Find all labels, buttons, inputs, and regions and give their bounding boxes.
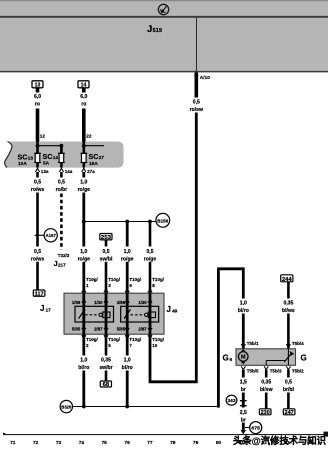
svg-text:5: 5: [108, 343, 111, 348]
svg-text:ro/br: ro/br: [56, 187, 68, 193]
terminal box 13: [32, 81, 43, 89]
svg-text:0,5: 0,5: [34, 179, 41, 185]
ground bus from B326: [73, 405, 219, 409]
svg-text:217: 217: [58, 262, 66, 267]
fuse panel (gray banner with SC fuses): [5, 142, 124, 168]
svg-text:13a: 13a: [41, 169, 49, 174]
svg-text:ro: ro: [81, 101, 86, 107]
svg-text:1: 1: [86, 283, 89, 288]
svg-text:76: 76: [124, 440, 130, 446]
svg-text:B326: B326: [61, 405, 71, 410]
svg-text:17: 17: [46, 307, 52, 313]
svg-text:1,0: 1,0: [80, 249, 87, 255]
svg-text:0,5: 0,5: [58, 179, 65, 185]
svg-text:14: 14: [53, 155, 59, 160]
svg-text:74: 74: [79, 440, 85, 446]
wire SC13 to 117 (0,5 ro/ws): [31, 172, 44, 247]
wire from 14 to SC27 (6,0 ro): [80, 88, 87, 142]
connector T5b/5: [241, 366, 259, 373]
svg-text:bl/ro: bl/ro: [122, 365, 133, 371]
wire T10g/7 down (1,0 bl/ro): [122, 334, 133, 406]
ground point 675: [245, 422, 262, 434]
svg-text:8: 8: [152, 283, 155, 288]
connector T10g/1: [86, 277, 99, 288]
svg-text:1,0: 1,0: [124, 249, 131, 255]
fuel pump motor M: [238, 349, 248, 364]
wire SC27 down (1,0 ro/ge): [78, 172, 91, 247]
svg-text:T10g/: T10g/: [108, 277, 121, 282]
svg-text:2/87: 2/87: [138, 327, 147, 332]
svg-text:80: 80: [216, 440, 222, 446]
svg-text:1/30: 1/30: [94, 300, 103, 305]
connector T10g/3: [108, 277, 121, 288]
connector T5b/3: [264, 366, 282, 373]
svg-text:13: 13: [28, 156, 34, 161]
wire 1,0 ro/ge to T10g/1: [78, 249, 91, 293]
svg-text:49: 49: [172, 308, 178, 314]
pin arrows at carrier bottom edge: [82, 335, 152, 338]
svg-text:1,0: 1,0: [124, 357, 131, 363]
wire T10g/10 loop to A/10: [149, 334, 197, 382]
fuse SC27 symbol: [80, 153, 87, 162]
svg-text:bl/ro: bl/ro: [78, 365, 89, 371]
ground wire 1,5 br: [240, 370, 247, 408]
svg-text:SC: SC: [43, 152, 53, 161]
svg-text:15A: 15A: [89, 161, 98, 167]
svg-text:sw/br: sw/br: [99, 365, 112, 371]
internal wire of J519: [196, 18, 198, 72]
svg-text:T10g/: T10g/: [86, 277, 99, 282]
control unit J519 box (top gray band): [0, 0, 328, 72]
svg-text:343: 343: [228, 398, 237, 403]
wire 244 to T5b/4 (0,35 bl/ws): [282, 282, 295, 349]
wire 0,5 ro/ws lower part: [31, 249, 44, 290]
svg-text:ro/ge: ro/ge: [144, 256, 157, 262]
svg-text:头条@汽修技术与知识: 头条@汽修技术与知识: [233, 435, 326, 447]
svg-text:1,0: 1,0: [240, 300, 247, 306]
wire 1,0 ro/ge to T10g/6: [121, 222, 134, 294]
svg-text:1,0: 1,0: [80, 179, 87, 185]
svg-text:247: 247: [285, 410, 294, 416]
relay J49 symbol: [121, 306, 159, 322]
svg-text:3: 3: [108, 283, 111, 288]
svg-text:J: J: [40, 304, 44, 313]
bus wire inside fuse panel: [36, 144, 104, 148]
label J217: [54, 259, 67, 268]
track numbers: [10, 440, 313, 446]
svg-text:2/87: 2/87: [94, 327, 103, 332]
svg-text:bl/ro: bl/ro: [238, 308, 249, 314]
wire A/10 from J519 (0,5 ro/sw): [190, 72, 203, 383]
fuel pump unit G6/G box: [236, 349, 296, 366]
svg-text:ro: ro: [35, 101, 40, 107]
sender wire 0,5 br/bl to 247: [283, 370, 295, 409]
svg-text:sw/bl: sw/bl: [100, 256, 113, 262]
connector T10g/5: [108, 337, 121, 348]
svg-text:A167: A167: [45, 233, 56, 238]
svg-text:0,5: 0,5: [193, 99, 200, 105]
svg-text:B156: B156: [157, 218, 169, 223]
fuse SC13 label: [18, 152, 34, 167]
svg-text:0,5: 0,5: [285, 379, 292, 385]
wire from 13 to SC13 (6,0 ro): [34, 88, 41, 142]
continuation box 244: [281, 275, 293, 283]
svg-text:0,5: 0,5: [102, 249, 109, 255]
svg-text:T5b/1: T5b/1: [247, 341, 259, 346]
fuse outlet 27a: [82, 168, 96, 173]
continuation box 68: [100, 381, 111, 388]
svg-text:ro/ge: ro/ge: [78, 187, 91, 193]
svg-text:27a: 27a: [87, 169, 95, 174]
svg-text:14a: 14a: [65, 169, 73, 174]
wire T10g/2 down (1,0 bl/ro): [78, 334, 89, 406]
svg-text:ro/ge: ro/ge: [121, 256, 134, 262]
svg-text:T5b/4: T5b/4: [292, 341, 304, 346]
wire 0,5 ro/ge to T10g/8: [144, 222, 157, 294]
svg-text:75: 75: [102, 440, 108, 446]
svg-text:ro/sw: ro/sw: [190, 107, 203, 113]
continuation box 117: [33, 290, 45, 298]
node bus to B156: [82, 220, 156, 224]
svg-text:2: 2: [86, 343, 89, 348]
svg-text:G: G: [301, 354, 307, 363]
fuse outlet 14a: [59, 168, 73, 173]
sender G symbol: [266, 349, 294, 366]
connector T10g/6: [129, 277, 142, 288]
connection box 253: [100, 234, 112, 242]
connection B156: [156, 213, 170, 227]
relay J17 symbol: [75, 306, 114, 322]
connection B326: [60, 400, 72, 412]
svg-text:M: M: [241, 355, 246, 361]
svg-text:5/85: 5/85: [117, 327, 126, 332]
svg-text:72: 72: [33, 440, 39, 446]
svg-text:0,5: 0,5: [146, 249, 153, 255]
svg-text:T10g/: T10g/: [152, 337, 165, 342]
svg-text:br/bl: br/bl: [283, 387, 295, 393]
svg-text:5/85: 5/85: [72, 327, 81, 332]
fuse SC14 symbol: [58, 153, 65, 162]
wires through carrier: [84, 293, 150, 334]
svg-text:77: 77: [147, 440, 153, 446]
fuse SC27 label: [89, 152, 105, 167]
svg-text:117: 117: [35, 292, 44, 298]
svg-text:12: 12: [40, 133, 46, 138]
svg-text:6: 6: [230, 357, 233, 363]
fuse outlet 13a: [35, 168, 49, 173]
svg-text:bl/sw: bl/sw: [260, 387, 273, 393]
svg-text:SC: SC: [89, 152, 99, 161]
svg-text:2,5: 2,5: [240, 410, 247, 416]
svg-text:ro/ws: ro/ws: [31, 256, 44, 262]
svg-text:T32/3: T32/3: [58, 253, 70, 258]
svg-text:7: 7: [129, 343, 132, 348]
connector T10g/10: [152, 337, 165, 348]
svg-text:G: G: [223, 354, 229, 363]
connector T5b/4: [286, 341, 304, 348]
svg-text:13: 13: [35, 83, 41, 89]
connection A167: [35, 229, 58, 242]
svg-text:1/86: 1/86: [72, 300, 81, 305]
connector T10g/7: [129, 337, 142, 348]
relay J49 pins inside carrier: [117, 299, 152, 331]
svg-text:br: br: [241, 417, 246, 423]
ground connection 343: [226, 395, 247, 406]
svg-text:T10g/: T10g/: [129, 277, 142, 282]
label G6: [223, 354, 233, 363]
svg-text:5A: 5A: [43, 161, 50, 167]
wire T10g/5 down (0,35 sw/br) to box 68: [99, 334, 112, 381]
terminal box 14: [78, 81, 89, 89]
svg-text:519: 519: [153, 28, 162, 34]
svg-text:675: 675: [251, 426, 260, 431]
svg-text:79: 79: [193, 440, 199, 446]
ground wire 2,5 br to frame: [240, 410, 247, 435]
svg-text:1,0: 1,0: [80, 357, 87, 363]
svg-text:10A: 10A: [18, 161, 27, 167]
label J49: [167, 305, 178, 314]
svg-text:27: 27: [99, 155, 105, 160]
system icon (circle with pump symbol) in title bar: [158, 4, 168, 14]
feed wire up-over-down to fuel pump: [217, 269, 249, 408]
connector T5b/1: [241, 341, 259, 348]
svg-text:ro/ge: ro/ge: [78, 256, 91, 262]
svg-text:0,35: 0,35: [283, 300, 293, 306]
svg-text:78: 78: [170, 440, 176, 446]
svg-text:244: 244: [282, 277, 292, 283]
svg-text:A/10: A/10: [200, 75, 210, 81]
connector T10g/2: [86, 337, 99, 348]
fuse SC13 symbol: [34, 153, 41, 162]
svg-text:73: 73: [56, 440, 62, 446]
wire stubs into fuses: [38, 142, 84, 168]
wire 0,5 sw/bl to T10g/3: [100, 240, 113, 293]
continuation box 247: [283, 409, 295, 416]
svg-text:T10g/: T10g/: [152, 277, 165, 282]
svg-text:SC: SC: [18, 152, 28, 161]
svg-text:T10g/: T10g/: [108, 337, 121, 342]
continuation box 230: [259, 409, 271, 416]
svg-text:bl/ws: bl/ws: [282, 308, 295, 314]
svg-text:68: 68: [103, 382, 110, 388]
svg-text:0,5: 0,5: [34, 249, 41, 255]
label J17: [40, 304, 51, 313]
sender wire 0,35 bl/sw to 230: [260, 370, 273, 409]
relay carrier plate: [64, 293, 164, 334]
svg-text:T5b/3: T5b/3: [270, 368, 282, 373]
connector T10g/8: [152, 277, 165, 288]
svg-text:14: 14: [81, 83, 87, 89]
label J519: [147, 24, 162, 35]
svg-text:230: 230: [261, 410, 270, 416]
svg-text:0,35: 0,35: [261, 379, 271, 385]
svg-text:10: 10: [152, 343, 158, 348]
svg-text:T5b/5: T5b/5: [247, 368, 259, 373]
svg-text:1/30: 1/30: [138, 300, 147, 305]
pin arrows at carrier top edge: [82, 289, 152, 292]
svg-text:J: J: [147, 24, 152, 35]
svg-text:6,0: 6,0: [34, 94, 41, 100]
wire SC14 to J217 (0,5 ro/br, dashed): [56, 172, 68, 250]
connector T5b/2: [286, 366, 304, 373]
svg-text:T10g/: T10g/: [86, 337, 99, 342]
svg-text:J: J: [167, 305, 171, 314]
relay J17 pins inside carrier: [72, 299, 108, 331]
svg-text:ro/ws: ro/ws: [31, 187, 44, 193]
svg-text:6,0: 6,0: [80, 94, 87, 100]
svg-text:22: 22: [86, 133, 92, 138]
svg-text:3/86: 3/86: [117, 300, 126, 305]
svg-text:T10g/: T10g/: [129, 337, 142, 342]
fuse SC14 label: [43, 152, 59, 167]
svg-text:0,35: 0,35: [101, 357, 111, 363]
svg-text:6: 6: [129, 283, 132, 288]
svg-text:br: br: [241, 387, 246, 393]
bottom frame line: [3, 432, 328, 437]
svg-text:71: 71: [10, 440, 16, 446]
svg-text:1,5: 1,5: [240, 379, 247, 385]
svg-text:T5b/2: T5b/2: [292, 368, 304, 373]
